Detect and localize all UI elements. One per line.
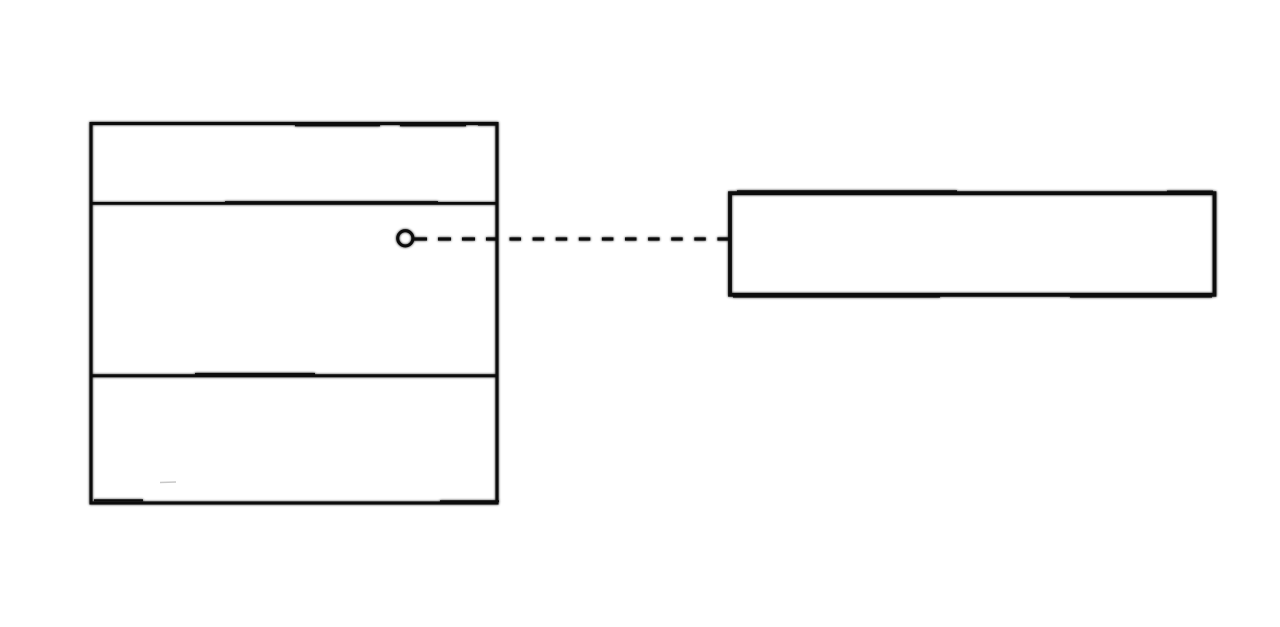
blurred halo pass: [90, 124, 1215, 504]
faint smudge: [160, 481, 176, 484]
crisp core pass: [90, 124, 1215, 504]
